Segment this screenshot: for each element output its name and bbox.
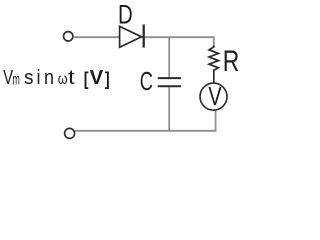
svg-text:D: D — [118, 0, 133, 30]
svg-text:i: i — [37, 66, 41, 89]
svg-text:[: [ — [84, 68, 89, 89]
svg-text:n: n — [44, 66, 54, 89]
svg-text:m: m — [12, 72, 20, 89]
svg-text:R: R — [223, 45, 240, 78]
svg-text:s: s — [24, 66, 34, 89]
svg-text:t: t — [68, 66, 75, 89]
svg-text:]: ] — [105, 68, 110, 89]
svg-text:C: C — [140, 68, 153, 96]
svg-text:V: V — [90, 66, 104, 89]
svg-text:ω: ω — [58, 71, 68, 88]
svg-text:V: V — [208, 81, 222, 111]
